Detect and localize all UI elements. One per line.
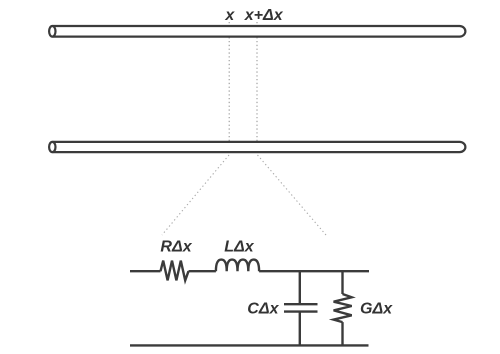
dotted construction line at x+&#916;x bbox=[256, 22, 258, 153]
conductor rod 1 (top) body bbox=[53, 26, 466, 37]
dotted construction line at x bbox=[228, 22, 230, 153]
capacitor C&#916;x bottom plate bbox=[284, 310, 318, 312]
capacitor C&#916;x bottom lead bbox=[299, 312, 301, 346]
wire: bottom return bbox=[130, 344, 369, 346]
conductor rod 1 left end cap ellipse bbox=[49, 26, 55, 37]
conductor rod 2 left end cap ellipse bbox=[49, 142, 55, 152]
capacitor C&#916;x top plate bbox=[284, 303, 318, 305]
svg-text:CΔx: CΔx bbox=[247, 301, 279, 318]
svg-text:RΔx: RΔx bbox=[160, 239, 192, 256]
inductor L&#916;x coils bbox=[216, 260, 259, 272]
capacitor C&#916;x top lead bbox=[299, 271, 301, 304]
resistor R&#916;x zigzag bbox=[161, 261, 189, 281]
svg-text:GΔx: GΔx bbox=[360, 301, 393, 318]
resistor G&#916;x bottom lead bbox=[341, 322, 343, 345]
dotted projection line left bbox=[162, 155, 229, 235]
svg-text:LΔx: LΔx bbox=[224, 239, 255, 256]
dotted projection line right bbox=[258, 155, 327, 235]
wire: top-left lead bbox=[130, 270, 161, 272]
wire: top-right segment bbox=[259, 270, 369, 272]
svg-text:x: x bbox=[224, 7, 235, 24]
svg-text:x+Δx: x+Δx bbox=[244, 7, 284, 24]
conductor rod 2 (bottom) body bbox=[53, 142, 466, 152]
wire: between R and L bbox=[189, 270, 216, 272]
resistor G&#916;x zigzag bbox=[334, 294, 352, 322]
resistor G&#916;x top lead bbox=[341, 271, 343, 294]
